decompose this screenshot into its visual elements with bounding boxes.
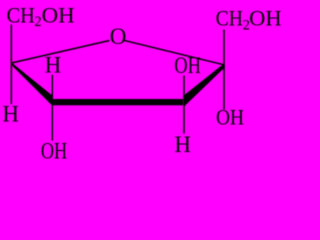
svg-text:O: O xyxy=(110,24,127,49)
svg-text:H: H xyxy=(45,53,62,78)
svg-text:OH: OH xyxy=(41,139,67,163)
svg-text:CH: CH xyxy=(7,3,35,28)
svg-text:OH: OH xyxy=(216,105,244,130)
svg-text:OH: OH xyxy=(174,53,201,78)
svg-text:H: H xyxy=(174,132,191,157)
svg-text:2: 2 xyxy=(34,14,41,30)
svg-text:H: H xyxy=(2,102,19,127)
svg-text:OH: OH xyxy=(249,6,282,31)
svg-text:CH: CH xyxy=(216,6,243,31)
svg-text:OH: OH xyxy=(42,3,75,28)
